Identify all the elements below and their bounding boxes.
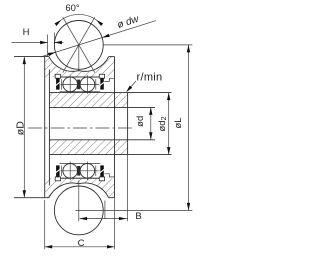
seals top row (black) bbox=[56, 78, 60, 89]
contact angle lines (X) through top ball bbox=[63, 17, 95, 72]
oL bottom reference line bbox=[76, 209, 193, 211]
cage end bars bottom row bbox=[61, 166, 63, 176]
svg-text:H: H bbox=[23, 27, 30, 38]
C extension lines bbox=[44, 200, 46, 249]
bore top line + od extension bbox=[49, 106, 155, 108]
oL dimension line + arrows bbox=[188, 45, 190, 211]
inner ring right face bbox=[127, 93, 129, 155]
inner ring bottom face + od2 extension bbox=[49, 154, 171, 156]
odw arrowhead left bbox=[48, 52, 56, 56]
odw dimension line bbox=[41, 21, 157, 57]
seal caps bottom row bbox=[55, 177, 60, 181]
H extension lines bbox=[47, 35, 49, 57]
track roller ball bottom bbox=[54, 186, 103, 235]
H dimension line + arrows bbox=[12, 42, 48, 44]
seal recess step bottom right bbox=[104, 174, 114, 177]
bore bottom line + od extension bbox=[49, 139, 155, 141]
ball top row right bbox=[80, 77, 95, 92]
cage block between balls bottom row bbox=[77, 166, 80, 176]
B extension: inner ring right face extended bbox=[127, 155, 129, 222]
arc arrowhead right bbox=[96, 20, 103, 26]
cage block between balls top row bbox=[77, 80, 80, 90]
cage end bars top row bbox=[61, 79, 63, 89]
vertical centre stub below top ball centre bbox=[78, 45, 80, 72]
inner ring upper section (hatched) bbox=[49, 93, 127, 108]
seal caps top row bbox=[55, 74, 60, 78]
inner ring top face + od2 extension bbox=[49, 92, 171, 94]
inner ring left face bbox=[48, 70, 50, 186]
outer ring seal-bore line bottom bbox=[55, 177, 104, 179]
od2 dimension line + arrows bbox=[168, 93, 170, 155]
seal slits bbox=[56, 169, 60, 172]
seal slits bbox=[56, 82, 60, 85]
ball top row left bbox=[63, 77, 78, 92]
svg-text:øL: øL bbox=[173, 117, 184, 128]
bearing axis centreline (dash-dot) bbox=[28, 127, 133, 129]
svg-text:B: B bbox=[135, 211, 141, 222]
flange bottom face right bbox=[109, 197, 115, 199]
C dimension line + arrows bbox=[45, 246, 115, 248]
outer ring seal-bore line top bbox=[55, 76, 104, 78]
r/min arrowhead bbox=[126, 86, 132, 93]
outer ring upper section (hatched) bbox=[45, 57, 115, 77]
B extension: outer ring right face extended bbox=[114, 198, 116, 250]
ball row centre line bottom bbox=[60, 170, 99, 172]
od dimension line + arrows bbox=[150, 107, 152, 139]
odw arrowhead right bbox=[102, 34, 110, 38]
outer ring lower section (hatched) bbox=[45, 178, 115, 197]
svg-text:øD: øD bbox=[15, 121, 27, 135]
seal recess step top right bbox=[104, 78, 114, 81]
svg-text:ød: ød bbox=[135, 116, 146, 127]
ball row centre line top bbox=[60, 83, 99, 85]
flange top face right bbox=[109, 56, 115, 58]
groove arch top bbox=[49, 57, 109, 72]
oD dimension line + arrows bbox=[23, 57, 25, 198]
groove arch bottom bbox=[49, 183, 109, 198]
svg-text:r/min: r/min bbox=[137, 72, 163, 84]
cage rail lines top row bbox=[60, 76, 101, 78]
extension line at arch end bottom right bbox=[104, 201, 106, 219]
outer ring right face bbox=[114, 57, 116, 198]
vertical centreline through bottom ball bbox=[78, 181, 80, 222]
svg-text:C: C bbox=[78, 238, 85, 249]
60 deg dimension arc bbox=[59, 14, 99, 21]
svg-text:60°: 60° bbox=[65, 3, 80, 14]
track roller ball top (dw circle) bbox=[54, 21, 103, 70]
arc arrowhead left bbox=[55, 20, 62, 26]
cage rail lines bottom row bbox=[60, 163, 101, 165]
flange top face left + oD extension bbox=[14, 56, 49, 58]
outer ring left face bbox=[44, 57, 46, 198]
oL top reference line bbox=[103, 44, 192, 46]
seals bottom row (black) bbox=[56, 165, 60, 176]
B dimension line + arrows bbox=[80, 218, 128, 220]
ball bottom row left bbox=[63, 164, 78, 179]
ball bottom row right bbox=[80, 164, 95, 179]
r/min leader line bbox=[127, 81, 136, 91]
inner ring lower section (hatched) bbox=[49, 140, 127, 155]
flange bottom face left + oD extension bbox=[14, 197, 49, 199]
